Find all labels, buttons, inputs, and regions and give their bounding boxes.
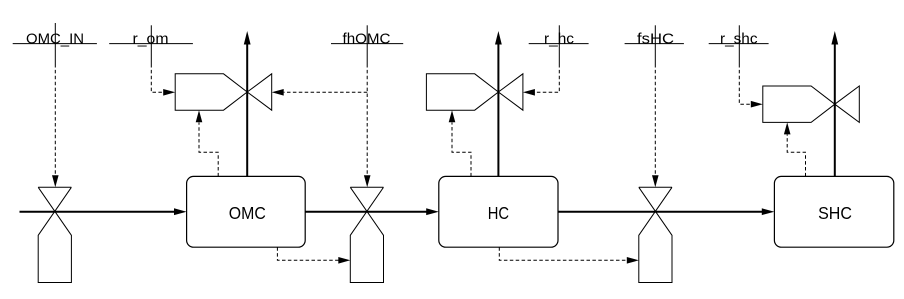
block SHC xyxy=(774,176,893,247)
wire OMC_IN signal to V1 xyxy=(54,64,56,176)
arrowhead into V6 bottom xyxy=(784,122,791,134)
wire fhOMC signal to V2 xyxy=(366,64,368,176)
svg-text:fhOMC: fhOMC xyxy=(343,32,391,48)
node fhOMC tick xyxy=(366,25,368,64)
svg-text:OMC: OMC xyxy=(229,203,266,223)
valve V2 OMC-HC xyxy=(350,187,383,282)
valve V1 feed inlet xyxy=(38,187,71,282)
wire r_hc signal to V4 xyxy=(535,64,559,92)
node fhOMC label line xyxy=(331,43,403,45)
svg-text:r_hc: r_hc xyxy=(544,32,574,48)
arrowhead SHC output xyxy=(831,31,838,45)
svg-text:SHC: SHC xyxy=(818,203,852,223)
node fsHC label line xyxy=(625,43,684,45)
valve V4 right cone xyxy=(498,74,523,110)
wire flow HC to SHC xyxy=(558,211,763,213)
node OMC_IN label line xyxy=(13,43,97,45)
node r_hc label line xyxy=(529,43,589,45)
arrowhead into V2 body xyxy=(338,257,350,264)
valve V3 OMC outlet (actuator body) xyxy=(175,74,247,110)
arrowhead into V3 cone xyxy=(272,89,284,96)
wire SHC output up xyxy=(834,44,836,176)
wire r_shc signal to V6 xyxy=(739,64,751,104)
wire fsHC signal to V5 xyxy=(654,64,656,176)
node r_hc tick xyxy=(558,25,560,64)
wire r_om signal to V3 xyxy=(151,64,163,92)
arrowhead into V3 bottom xyxy=(196,110,203,122)
node fsHC tick xyxy=(654,25,656,64)
valve V6 right cone xyxy=(835,86,860,122)
wire OMC bottom signal to V2 xyxy=(277,247,338,260)
svg-text:OMC_IN: OMC_IN xyxy=(26,32,84,48)
arrowhead into V2 xyxy=(364,175,371,187)
arrowhead into V5 xyxy=(652,175,659,187)
block OMC xyxy=(187,176,306,247)
node r_shc tick xyxy=(738,25,740,64)
svg-text:HC: HC xyxy=(488,203,510,223)
valve V3 right cone xyxy=(247,74,272,110)
arrowhead into SHC xyxy=(762,208,775,215)
valve V5 HC-SHC xyxy=(639,187,672,282)
svg-text:r_shc: r_shc xyxy=(720,32,758,48)
wire flow feed to OMC xyxy=(20,211,176,213)
arrowhead HC output xyxy=(495,31,502,45)
arrowhead into V6 body xyxy=(751,101,763,108)
wire SHC feedback to V6 xyxy=(787,135,805,177)
wire HC feedback to V4 xyxy=(452,123,471,177)
block HC xyxy=(439,176,558,247)
wire OMC output up xyxy=(246,44,248,176)
wire HC output up xyxy=(497,44,499,176)
valve V6 SHC outlet (actuator body) xyxy=(763,86,835,122)
arrowhead into OMC xyxy=(174,208,187,215)
wire HC bottom signal to V5 xyxy=(499,247,627,260)
arrowhead OMC output xyxy=(244,31,251,45)
valve V4 HC outlet (actuator body) xyxy=(426,74,498,110)
arrowhead into V4 cone xyxy=(523,89,535,96)
arrowhead into HC xyxy=(426,208,439,215)
wire fhOMC branch to V3 xyxy=(284,91,368,93)
arrowhead into V3 body xyxy=(163,89,175,96)
wire OMC feedback to V3 xyxy=(199,123,218,177)
svg-text:r_om: r_om xyxy=(133,32,169,48)
node r_om tick xyxy=(150,25,152,64)
wire flow OMC to HC xyxy=(305,211,427,213)
arrowhead into V5 body xyxy=(627,257,639,264)
svg-text:fsHC: fsHC xyxy=(637,32,674,48)
arrowhead into V4 bottom xyxy=(449,110,456,122)
node r_om label line xyxy=(109,43,193,45)
node OMC_IN tick xyxy=(54,23,56,64)
arrowhead into V1 xyxy=(52,175,59,187)
node r_shc label line xyxy=(709,43,769,45)
